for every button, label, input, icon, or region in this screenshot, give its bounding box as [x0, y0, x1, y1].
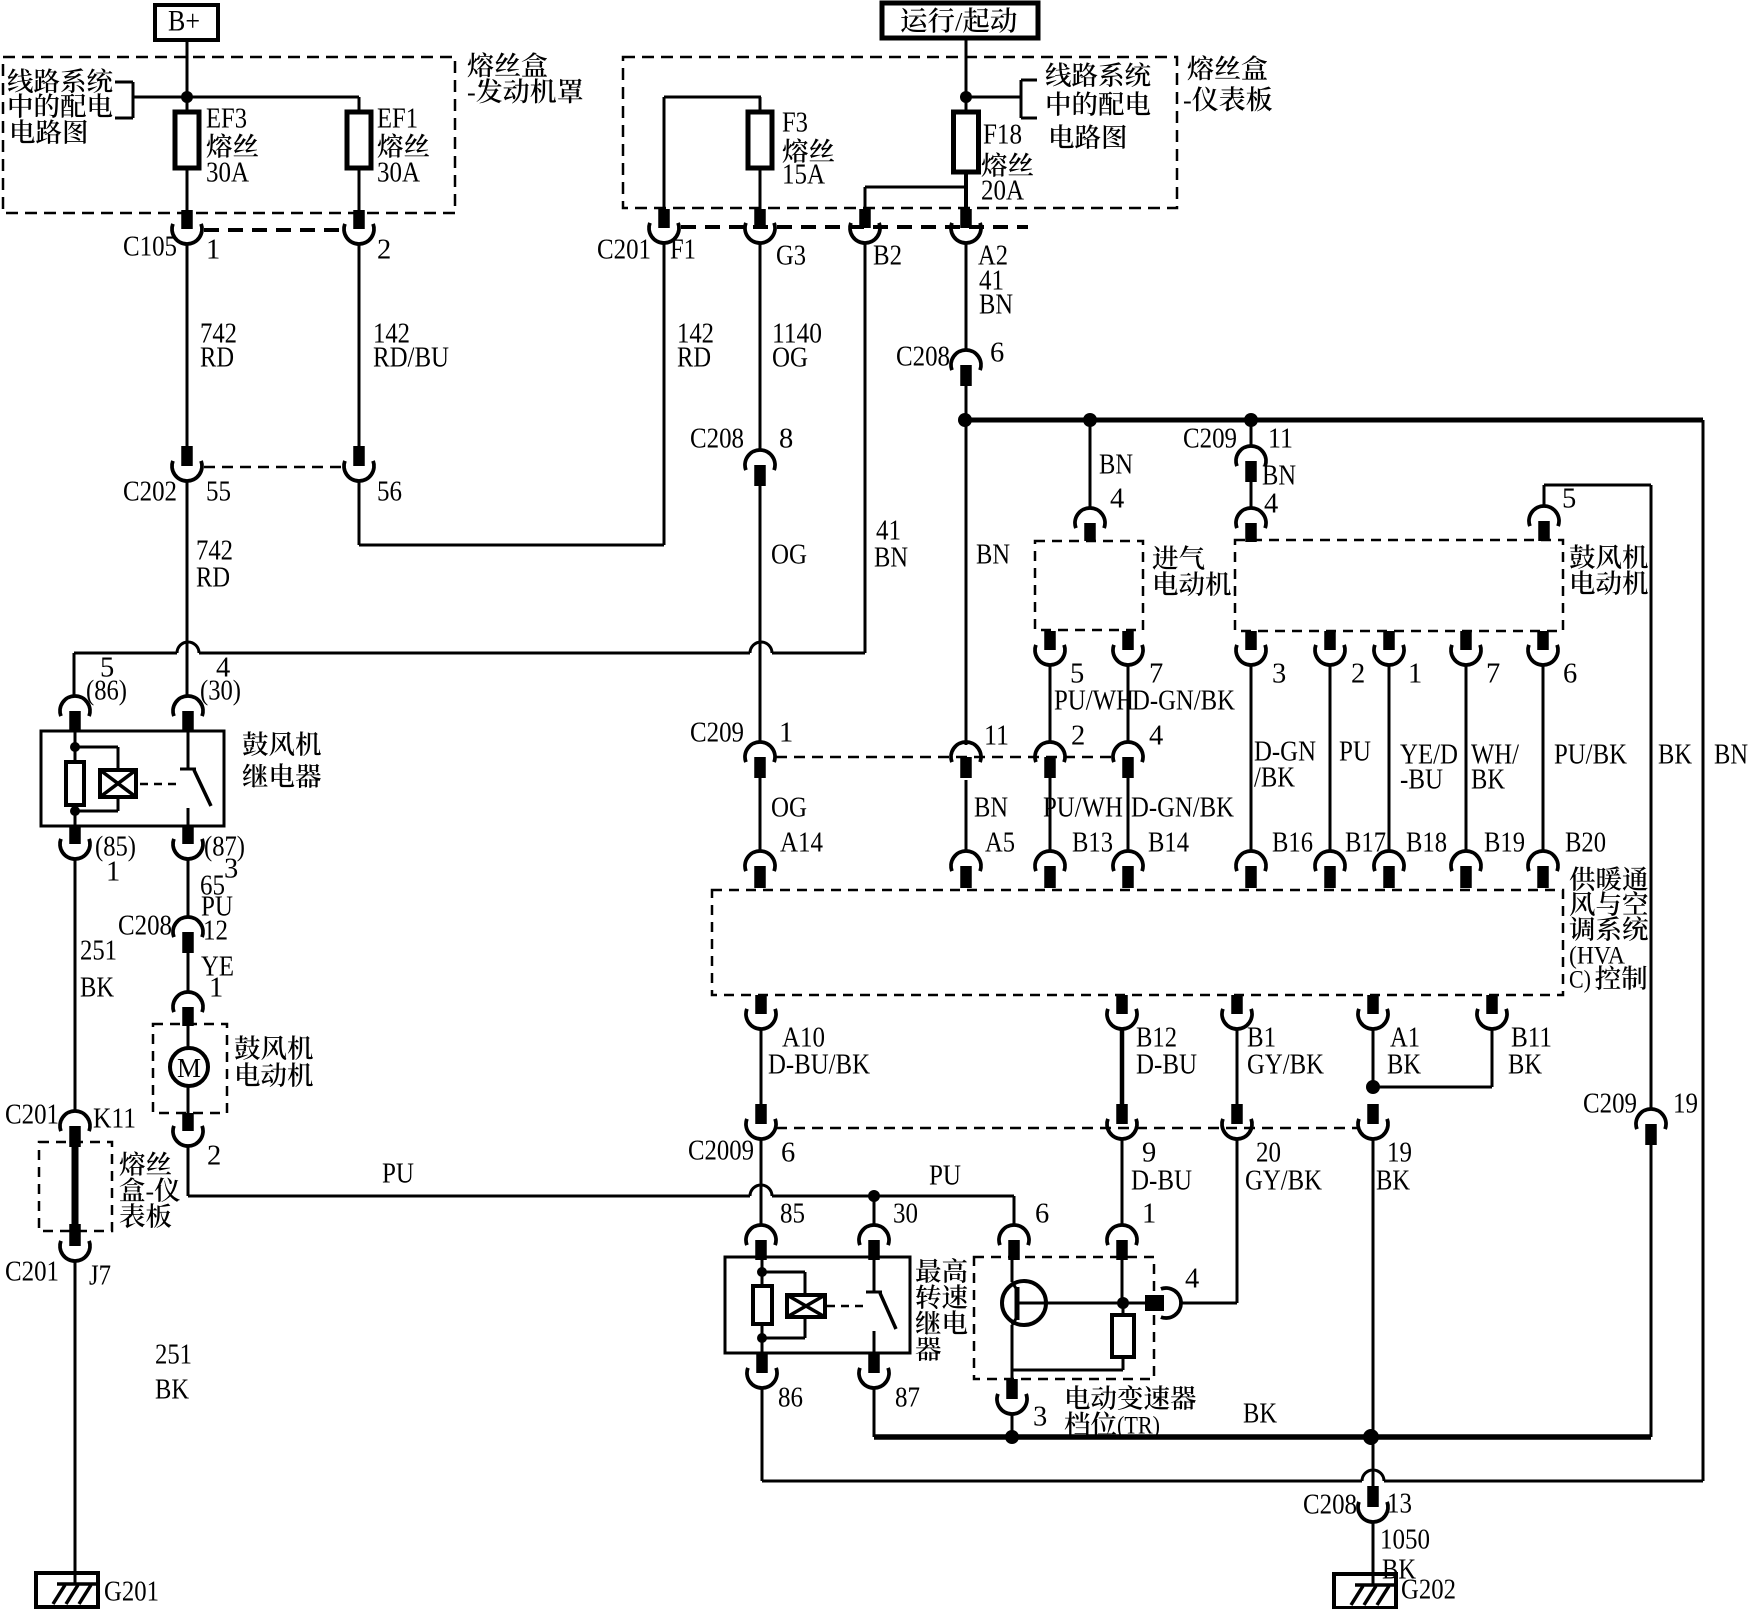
svg-text:PU/BK: PU/BK	[1554, 740, 1627, 771]
svg-text:B18: B18	[1406, 828, 1447, 859]
svg-text:-: -	[467, 78, 476, 107]
svg-text:GY/BK: GY/BK	[1247, 1050, 1324, 1081]
svg-text:B2: B2	[873, 241, 902, 272]
svg-text:11: 11	[984, 721, 1009, 752]
svg-text:G201: G201	[104, 1577, 159, 1608]
svg-text:PU: PU	[929, 1161, 961, 1192]
svg-text:9: 9	[1142, 1138, 1156, 1169]
svg-text:C201: C201	[5, 1100, 59, 1131]
svg-text:6: 6	[990, 338, 1004, 369]
svg-text:D-BU/BK: D-BU/BK	[768, 1050, 870, 1081]
svg-text:G3: G3	[776, 241, 806, 272]
svg-text:30A: 30A	[377, 158, 420, 189]
svg-text:PU/WH: PU/WH	[1043, 793, 1123, 824]
svg-text:B16: B16	[1272, 828, 1313, 859]
svg-text:D-GN/BK: D-GN/BK	[1132, 686, 1235, 717]
svg-text:PU: PU	[382, 1159, 414, 1190]
svg-text:C201: C201	[597, 235, 651, 266]
svg-text:C2009: C2009	[688, 1136, 754, 1167]
svg-text:-: -	[146, 1177, 155, 1206]
svg-text:3: 3	[1272, 659, 1286, 690]
svg-text:30: 30	[893, 1199, 918, 1230]
svg-text:PU: PU	[1339, 737, 1371, 768]
svg-text:C209: C209	[1583, 1089, 1637, 1120]
svg-text:2: 2	[1071, 721, 1085, 752]
svg-text:BN: BN	[976, 540, 1010, 571]
svg-text:EF3: EF3	[206, 104, 247, 135]
svg-text:1: 1	[1142, 1199, 1156, 1230]
svg-text:19: 19	[1673, 1089, 1698, 1120]
svg-text:(TR): (TR)	[1117, 1411, 1160, 1440]
svg-text:4: 4	[1185, 1264, 1199, 1295]
svg-text:5: 5	[1562, 484, 1576, 515]
svg-text:C209: C209	[1183, 424, 1237, 455]
svg-text:BN: BN	[1099, 450, 1133, 481]
svg-text:C202: C202	[123, 477, 177, 508]
svg-text:BK: BK	[1382, 1555, 1416, 1586]
svg-text:BN: BN	[1714, 740, 1748, 771]
svg-text:251: 251	[80, 936, 117, 967]
svg-text:EF1: EF1	[377, 104, 418, 135]
svg-text:RD: RD	[200, 343, 234, 374]
svg-text:BK: BK	[1471, 765, 1505, 796]
svg-text:1: 1	[1408, 659, 1422, 690]
svg-text:3: 3	[224, 854, 238, 885]
svg-text:BK: BK	[1387, 1050, 1421, 1081]
svg-text:55: 55	[206, 477, 231, 508]
svg-text:D-GN/BK: D-GN/BK	[1131, 793, 1234, 824]
svg-text:OG: OG	[772, 343, 808, 374]
svg-text:BK: BK	[1658, 740, 1692, 771]
svg-text:87: 87	[895, 1383, 920, 1414]
svg-text:4: 4	[1110, 484, 1124, 515]
svg-text:251: 251	[155, 1340, 192, 1371]
svg-text:C209: C209	[690, 718, 744, 749]
svg-text:1: 1	[206, 235, 220, 266]
svg-text:2: 2	[207, 1141, 221, 1172]
svg-text:B14: B14	[1148, 828, 1189, 859]
svg-text:11: 11	[1268, 424, 1293, 455]
svg-text:D-BU: D-BU	[1136, 1050, 1197, 1081]
svg-text:1050: 1050	[1380, 1525, 1430, 1556]
svg-text:1: 1	[209, 973, 223, 1004]
svg-text:4: 4	[1149, 721, 1163, 752]
svg-text:19: 19	[1387, 1138, 1412, 1169]
svg-text:F18: F18	[983, 120, 1022, 151]
svg-text:6: 6	[1563, 659, 1577, 690]
svg-text:12: 12	[203, 916, 228, 947]
svg-text:-: -	[1183, 86, 1192, 115]
svg-text:OG: OG	[771, 540, 807, 571]
svg-text:7: 7	[1486, 659, 1500, 690]
svg-text:1: 1	[779, 718, 793, 749]
svg-text:B17: B17	[1345, 828, 1386, 859]
svg-text:BK: BK	[1376, 1166, 1410, 1197]
svg-text:6: 6	[781, 1138, 795, 1169]
svg-text:A14: A14	[780, 828, 823, 859]
svg-text:20A: 20A	[981, 176, 1024, 207]
svg-text:RD/BU: RD/BU	[373, 343, 449, 374]
svg-text:BK: BK	[1508, 1050, 1542, 1081]
svg-text:PU/WH: PU/WH	[1054, 686, 1134, 717]
svg-text:RD: RD	[196, 563, 230, 594]
svg-text:GY/BK: GY/BK	[1245, 1166, 1322, 1197]
svg-text:/BK: /BK	[1254, 763, 1295, 794]
svg-text:D-BU: D-BU	[1131, 1166, 1192, 1197]
svg-text:/: /	[955, 7, 963, 37]
svg-text:2: 2	[377, 235, 391, 266]
svg-text:15A: 15A	[782, 160, 825, 191]
svg-text:4: 4	[1264, 489, 1278, 520]
svg-text:C208: C208	[690, 424, 744, 455]
svg-text:B13: B13	[1072, 828, 1113, 859]
svg-text:-BU: -BU	[1400, 765, 1443, 796]
svg-text:C105: C105	[123, 232, 177, 263]
svg-text:BK: BK	[80, 973, 114, 1004]
svg-text:J7: J7	[89, 1261, 111, 1292]
svg-text:A5: A5	[985, 828, 1015, 859]
svg-text:C201: C201	[5, 1257, 59, 1288]
svg-text:8: 8	[779, 424, 793, 455]
svg-text:F3: F3	[782, 108, 808, 139]
svg-text:C): C)	[1569, 965, 1591, 994]
svg-text:86: 86	[778, 1383, 803, 1414]
svg-text:56: 56	[377, 477, 402, 508]
svg-text:13: 13	[1387, 1489, 1412, 1520]
svg-text:C208: C208	[118, 911, 172, 942]
svg-text:OG: OG	[771, 793, 807, 824]
svg-text:C208: C208	[896, 342, 950, 373]
svg-text:85: 85	[780, 1199, 805, 1230]
svg-text:6: 6	[1035, 1199, 1049, 1230]
svg-text:BN: BN	[979, 290, 1013, 321]
svg-text:2: 2	[1351, 659, 1365, 690]
svg-text:(86): (86)	[86, 676, 127, 707]
svg-text:B+: B+	[168, 5, 200, 38]
svg-text:RD: RD	[677, 343, 711, 374]
svg-text:BN: BN	[974, 793, 1008, 824]
svg-text:BK: BK	[155, 1375, 189, 1406]
svg-text:B19: B19	[1484, 828, 1525, 859]
svg-text:BN: BN	[1262, 461, 1296, 492]
svg-text:BN: BN	[874, 543, 908, 574]
svg-text:B20: B20	[1565, 828, 1606, 859]
svg-text:20: 20	[1256, 1138, 1281, 1169]
svg-text:BK: BK	[1243, 1399, 1277, 1430]
svg-text:(30): (30)	[200, 676, 241, 707]
svg-text:M: M	[177, 1053, 201, 1083]
svg-text:K11: K11	[93, 1104, 136, 1135]
svg-text:1: 1	[106, 857, 120, 888]
svg-text:30A: 30A	[206, 158, 249, 189]
svg-text:3: 3	[1033, 1402, 1047, 1433]
svg-text:C208: C208	[1303, 1490, 1357, 1521]
svg-text:F1: F1	[670, 235, 696, 266]
